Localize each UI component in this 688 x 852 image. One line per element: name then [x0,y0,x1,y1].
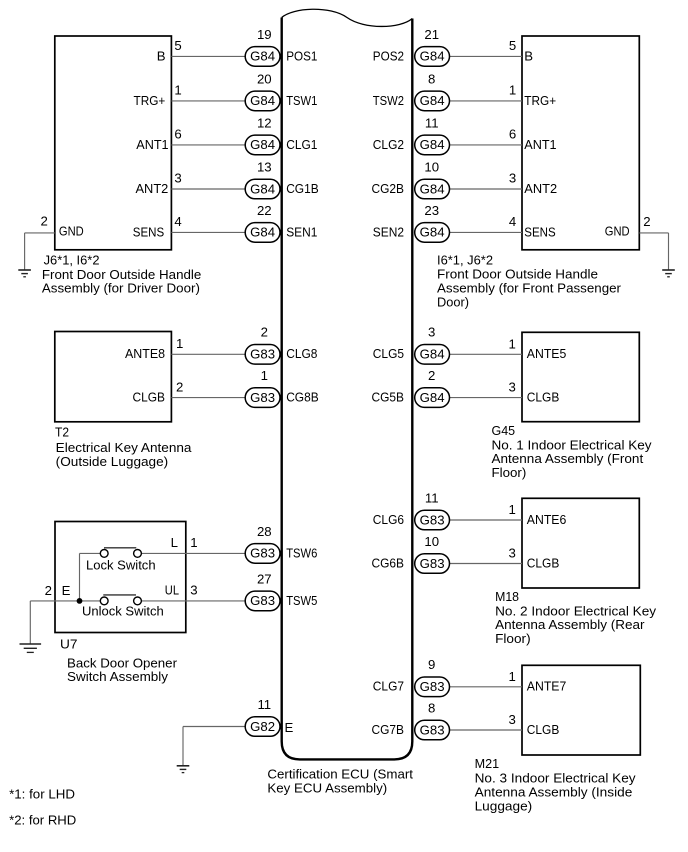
svg-text:1: 1 [176,336,183,351]
svg-text:TSW2: TSW2 [373,93,404,108]
svg-text:POS2: POS2 [373,48,404,63]
svg-text:G84: G84 [250,181,275,196]
svg-text:G84: G84 [420,390,445,405]
svg-text:ANT2: ANT2 [136,181,169,196]
svg-text:G83: G83 [250,546,275,561]
svg-text:T2: T2 [55,425,69,440]
svg-text:UL: UL [165,582,179,597]
svg-text:G84: G84 [420,225,445,240]
svg-text:Door): Door) [437,295,469,310]
svg-text:Assembly (for Driver Door): Assembly (for Driver Door) [42,281,200,296]
svg-text:2: 2 [261,325,268,340]
svg-text:19: 19 [257,27,272,42]
svg-text:CLG1: CLG1 [286,137,317,152]
svg-text:G83: G83 [250,347,275,362]
svg-text:CLGB: CLGB [527,555,560,570]
svg-text:CG5B: CG5B [372,390,405,405]
svg-text:G83: G83 [420,512,445,527]
svg-text:11: 11 [425,115,439,130]
svg-text:I6*1, J6*2: I6*1, J6*2 [437,252,493,267]
svg-text:G83: G83 [250,390,275,405]
svg-text:G84: G84 [420,181,445,196]
svg-text:Floor): Floor) [495,631,530,646]
svg-text:CLG5: CLG5 [373,346,404,361]
svg-text:POS1: POS1 [286,48,317,63]
svg-text:6: 6 [174,127,181,142]
svg-text:2: 2 [643,214,650,229]
svg-text:TRG+: TRG+ [524,93,556,108]
svg-text:CG6B: CG6B [372,555,405,570]
svg-text:ANTE7: ANTE7 [527,679,567,694]
svg-text:M18: M18 [495,589,519,604]
svg-text:Floor): Floor) [492,465,527,480]
svg-text:1: 1 [509,83,516,98]
svg-text:GND: GND [59,224,84,239]
svg-text:G84: G84 [420,93,445,108]
svg-text:Switch Assembly: Switch Assembly [67,669,168,684]
svg-text:Assembly (for Front Passenger: Assembly (for Front Passenger [437,281,622,296]
svg-text:11: 11 [257,697,271,712]
svg-text:G84: G84 [250,49,275,64]
svg-text:G45: G45 [492,423,516,438]
svg-text:3: 3 [509,171,516,186]
svg-text:SENS: SENS [133,224,165,239]
svg-text:G84: G84 [420,49,445,64]
svg-text:Antenna Assembly (Rear: Antenna Assembly (Rear [495,617,645,632]
svg-text:SENS: SENS [524,224,556,239]
svg-text:CG2B: CG2B [372,181,405,196]
svg-text:9: 9 [428,657,435,672]
svg-text:SEN1: SEN1 [286,224,317,239]
svg-text:ANT2: ANT2 [524,181,557,196]
svg-text:L: L [171,535,178,550]
svg-text:G84: G84 [250,137,275,152]
svg-text:27: 27 [257,571,272,586]
svg-text:CLG2: CLG2 [373,137,404,152]
svg-text:M21: M21 [475,756,500,771]
svg-text:G83: G83 [250,593,275,608]
svg-text:10: 10 [424,534,439,549]
svg-text:1: 1 [174,83,181,98]
svg-text:3: 3 [508,546,515,561]
svg-text:B: B [524,48,533,63]
svg-text:11: 11 [425,490,439,505]
svg-text:22: 22 [257,203,272,218]
svg-text:12: 12 [257,115,272,130]
svg-text:SEN2: SEN2 [373,224,404,239]
svg-text:G84: G84 [250,93,275,108]
svg-text:4: 4 [509,214,516,229]
svg-text:6: 6 [509,127,516,142]
svg-text:2: 2 [428,368,435,383]
svg-text:3: 3 [508,380,515,395]
svg-text:CG1B: CG1B [286,181,319,196]
svg-text:CLG8: CLG8 [286,346,317,361]
svg-text:Antenna Assembly (Front: Antenna Assembly (Front [492,451,644,466]
svg-text:TRG+: TRG+ [134,93,166,108]
svg-text:TSW5: TSW5 [286,593,317,608]
svg-text:TSW6: TSW6 [286,545,317,560]
svg-text:J6*1, I6*2: J6*1, I6*2 [44,252,100,267]
svg-text:Front Door Outside Handle: Front Door Outside Handle [437,267,598,282]
svg-text:G84: G84 [420,347,445,362]
svg-text:ANTE6: ANTE6 [527,512,567,527]
svg-text:G83: G83 [420,556,445,571]
svg-text:CLGB: CLGB [527,390,560,405]
svg-text:G84: G84 [420,137,445,152]
svg-text:CLGB: CLGB [133,390,166,405]
svg-text:3: 3 [508,712,515,727]
svg-text:Lock Switch: Lock Switch [86,558,156,573]
svg-text:4: 4 [174,214,181,229]
svg-text:CG8B: CG8B [286,390,319,405]
svg-text:3: 3 [190,582,197,597]
svg-text:Front Door Outside Handle: Front Door Outside Handle [42,267,201,282]
svg-text:2: 2 [40,214,47,229]
svg-text:G84: G84 [250,225,275,240]
svg-text:1: 1 [508,502,515,517]
svg-text:CLGB: CLGB [527,722,560,737]
svg-text:3: 3 [174,171,181,186]
svg-text:Antenna Assembly (Inside: Antenna Assembly (Inside [475,784,633,799]
svg-text:Electrical Key Antenna: Electrical Key Antenna [56,440,192,455]
svg-text:Luggage): Luggage) [475,799,533,814]
svg-text:No. 1 Indoor Electrical Key: No. 1 Indoor Electrical Key [492,437,652,452]
svg-text:8: 8 [428,700,435,715]
svg-text:ANT1: ANT1 [524,137,556,152]
svg-text:2: 2 [176,379,183,394]
svg-text:1: 1 [261,368,268,383]
svg-text:No. 2 Indoor Electrical Key: No. 2 Indoor Electrical Key [495,603,656,618]
svg-text:1: 1 [508,669,515,684]
svg-text:13: 13 [257,159,272,174]
svg-text:23: 23 [424,203,439,218]
svg-text:CLG6: CLG6 [373,512,404,527]
svg-text:G82: G82 [250,719,275,734]
svg-text:E: E [62,583,71,598]
svg-text:B: B [157,48,166,63]
svg-text:G83: G83 [420,722,445,737]
svg-text:Certification ECU (Smart: Certification ECU (Smart [267,767,413,782]
svg-text:8: 8 [428,71,435,86]
svg-text:ANT1: ANT1 [136,137,168,152]
svg-text:(Outside Luggage): (Outside Luggage) [56,454,169,469]
svg-text:*1: for LHD: *1: for LHD [9,787,75,802]
svg-text:TSW1: TSW1 [286,93,317,108]
svg-text:28: 28 [257,524,272,539]
svg-text:21: 21 [424,27,439,42]
svg-text:1: 1 [508,336,515,351]
svg-text:G83: G83 [420,679,445,694]
svg-text:5: 5 [174,38,181,53]
svg-text:1: 1 [190,535,197,550]
svg-text:ANTE8: ANTE8 [125,346,165,361]
svg-text:E: E [285,720,294,735]
svg-text:U7: U7 [60,637,78,652]
svg-text:3: 3 [428,325,435,340]
svg-text:*2: for RHD: *2: for RHD [9,812,76,827]
svg-text:ANTE5: ANTE5 [527,346,567,361]
svg-text:10: 10 [424,159,439,174]
svg-text:5: 5 [509,38,516,53]
svg-text:Unlock Switch: Unlock Switch [82,603,164,618]
svg-text:20: 20 [257,71,272,86]
svg-text:Key ECU Assembly): Key ECU Assembly) [267,781,387,796]
svg-text:GND: GND [605,224,630,239]
svg-text:2: 2 [45,583,52,598]
svg-text:CG7B: CG7B [372,722,405,737]
svg-text:CLG7: CLG7 [373,679,404,694]
